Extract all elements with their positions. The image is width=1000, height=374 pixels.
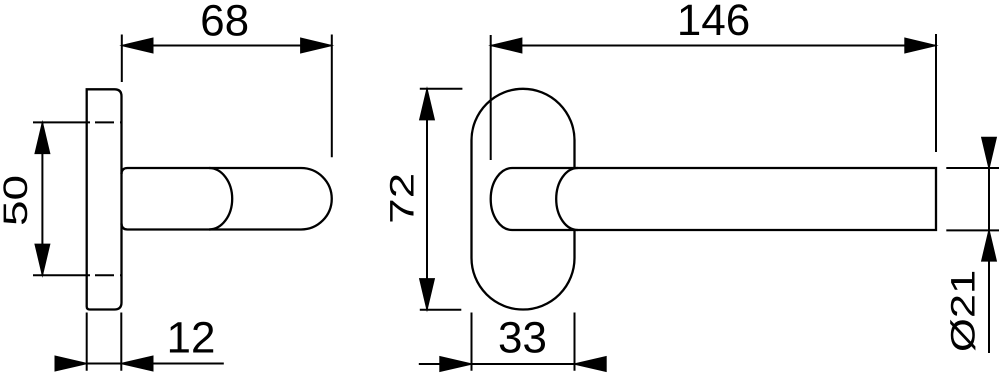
dim 12 line (87, 363, 224, 365)
arrowhead 68 right (301, 38, 332, 52)
dim 12 extension lines (87, 313, 122, 371)
grip left cap arc (front view) (556, 168, 578, 230)
label O21 (rotated) (950, 272, 975, 351)
dim 33 line (419, 363, 575, 365)
arrowhead 12 left (55, 356, 86, 370)
dim O21 extension lines (946, 168, 999, 230)
arrowhead 50 bottom (35, 244, 49, 274)
dim 72 line (426, 89, 428, 310)
dim 33 extension lines (472, 313, 575, 371)
label 12 (170, 322, 213, 353)
handle (front view) neck + grip outline (491, 168, 936, 230)
arrowhead 146 left (491, 38, 522, 52)
label 33 (500, 322, 545, 353)
label 50 (rotated) (3, 177, 27, 224)
label 72 (rotated) (390, 175, 414, 221)
plate (side view, left) (87, 89, 122, 309)
screw-hole center dashed line top (33, 121, 121, 123)
arrowhead 12 right (121, 356, 153, 370)
dim O21 line (988, 137, 990, 353)
arrowhead 72 bottom (420, 279, 434, 310)
oval rosette (front view) (472, 89, 575, 310)
arrowhead 68 left (122, 38, 153, 52)
arrowhead 72 top (420, 89, 434, 120)
dim 72 extension lines (420, 89, 463, 310)
dim 50 line (41, 122, 43, 275)
handle lever (side view) (122, 168, 332, 230)
arrowhead O21 top (982, 138, 996, 169)
arrowhead 33 right (575, 357, 607, 371)
screw-hole center dashed line bottom (33, 274, 121, 276)
label 146 (680, 4, 748, 35)
arrowhead O21 bottom (982, 230, 996, 261)
label 68 (202, 5, 247, 36)
arrowhead 33 left (440, 357, 472, 371)
dim 68 line (122, 45, 332, 47)
dim 146 extension lines (491, 34, 936, 160)
dim 146 line (491, 45, 936, 47)
neck-grip transition arc (side view) (209, 168, 232, 230)
dim 68 extension lines (122, 35, 332, 158)
arrowhead 50 top (35, 123, 49, 153)
arrowhead 146 right (905, 38, 936, 52)
